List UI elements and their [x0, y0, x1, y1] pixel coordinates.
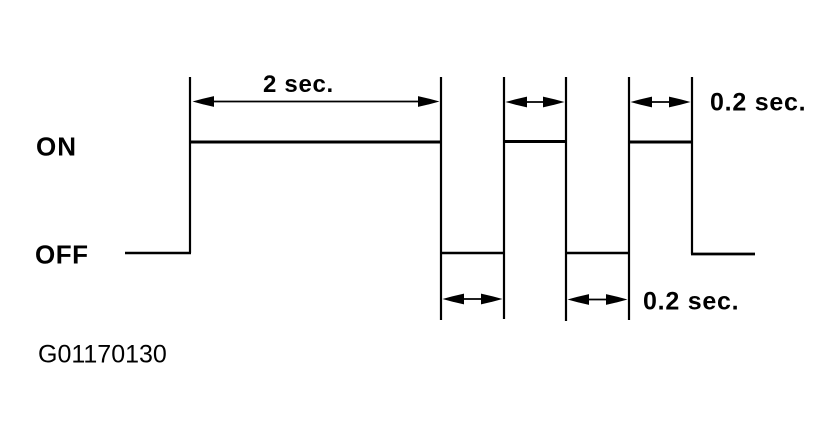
svg-text:ON: ON	[36, 132, 77, 162]
svg-text:2 sec.: 2 sec.	[263, 71, 334, 98]
wire trailing OFF segment	[691, 253, 755, 256]
svg-text:G01170130: G01170130	[38, 341, 167, 369]
wire rising edge 3 with witness extension (x=629)	[628, 77, 630, 320]
wire rising edge 1 with witness extension (x=190)	[189, 77, 191, 253]
dimension arrow pulse2 ON width (between x=504 and x=566)	[506, 97, 565, 108]
wire OFF gap 1	[441, 252, 504, 255]
wire ON segment 3	[629, 141, 692, 144]
dimension arrow OFF gap 2 width (between x=566 and x=629)	[568, 294, 628, 305]
wire ON segment 2	[504, 140, 566, 143]
dimension arrow OFF gap 1 width (between x=441 and x=504)	[443, 294, 503, 305]
dimension arrow 2 sec (between x=190 and x=441)	[193, 96, 440, 107]
wire falling edge 2 with witness extension (x=566)	[565, 77, 567, 321]
wire rising edge 2 with witness extension (x=504)	[503, 77, 505, 319]
svg-text:OFF: OFF	[35, 240, 89, 270]
wire OFF gap 2	[566, 252, 629, 255]
svg-text:0.2 sec.: 0.2 sec.	[710, 89, 806, 117]
wire leading OFF segment	[125, 252, 191, 255]
wire ON segment 1 (2 sec pulse top)	[190, 141, 441, 144]
svg-text:0.2 sec.: 0.2 sec.	[643, 288, 739, 316]
wire falling edge 3 (x=692)	[691, 77, 693, 254]
wire falling edge 1 with witness extension (x=441)	[440, 77, 442, 320]
dimension arrow pulse3 ON width (between x=629 and x=692)	[631, 97, 691, 108]
